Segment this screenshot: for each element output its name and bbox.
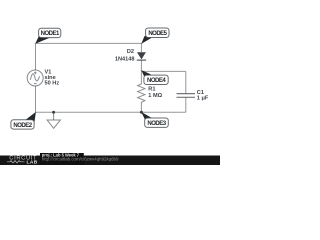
resistor R1 — [138, 84, 145, 105]
label C1 value — [197, 90, 209, 102]
wire left branch lower — [35, 86, 37, 112]
wire resistor bottom lead — [140, 105, 142, 113]
capacitor C1 — [177, 94, 196, 98]
wire capacitor branch lower — [185, 97, 187, 112]
diode D2 — [137, 52, 146, 60]
ground — [47, 112, 60, 128]
svg-text:50 Hz: 50 Hz — [45, 81, 60, 87]
wire top rail — [36, 42, 142, 44]
svg-text:NODE3: NODE3 — [147, 121, 166, 127]
node NODE1 — [35, 28, 61, 44]
node NODE3 — [141, 112, 168, 128]
node NODE4 — [141, 70, 168, 84]
junction dot node3 — [140, 111, 143, 114]
label R1 value — [148, 86, 162, 99]
node NODE2 — [11, 112, 36, 129]
svg-text:NODE1: NODE1 — [41, 31, 60, 37]
svg-text:1 MΩ: 1 MΩ — [148, 93, 162, 99]
svg-text:NODE2: NODE2 — [13, 123, 32, 129]
wire right branch diode to resistor — [140, 60, 142, 84]
wire left branch upper — [35, 43, 37, 70]
svg-text:1 μF: 1 μF — [197, 95, 209, 101]
svg-text:NODE5: NODE5 — [148, 31, 167, 37]
wire bottom rail — [36, 111, 186, 113]
footer bar — [0, 156, 220, 166]
logo resistor squiggle — [7, 161, 25, 163]
svg-text:LAB: LAB — [27, 160, 38, 166]
footer title block — [40, 153, 84, 165]
node NODE5 — [141, 28, 169, 44]
svg-text:1N4148: 1N4148 — [115, 56, 135, 62]
wire capacitor branch upper — [185, 71, 187, 93]
svg-text:D2: D2 — [127, 49, 134, 55]
wire right branch diode top — [140, 43, 142, 52]
label V1 value — [45, 69, 60, 86]
svg-text:NODE4: NODE4 — [147, 78, 166, 84]
junction dot ground — [52, 111, 55, 114]
label D2 value — [115, 49, 135, 62]
svg-text:http://circuitlab.com/c/6zwv4q: http://circuitlab.com/c/6zwv4qh92kq6b9 — [42, 157, 119, 162]
voltage source V1 — [27, 70, 43, 86]
svg-text:R1: R1 — [148, 86, 155, 92]
wire capacitor branch horizontal — [141, 70, 185, 72]
